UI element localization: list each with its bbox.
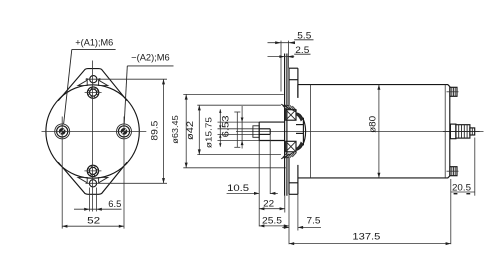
svg-text:6.5: 6.5: [108, 199, 121, 209]
tab block top (side view): [289, 67, 298, 69]
flange body circle: [46, 85, 139, 178]
shaft tip: [253, 126, 259, 138]
centerline stud A1 vertical: [61, 117, 63, 229]
body seam rear: [444, 85, 446, 178]
dim 6.53 dim line: [219, 109, 221, 147]
flange rim ext line: [280, 41, 282, 92]
bearing bottom (section): [286, 141, 296, 152]
svg-text:5.5: 5.5: [297, 30, 311, 40]
svg-text:52: 52: [87, 215, 100, 226]
ext flange face vertical: [284, 196, 286, 213]
dim 20.5 ext left: [450, 179, 452, 244]
tab block bottom (side view): [289, 182, 298, 184]
through-bolt head bottom: [450, 167, 457, 176]
hub seal bottom: [296, 142, 303, 151]
svg-text:137.5: 137.5: [352, 231, 380, 242]
svg-text:ø63.45: ø63.45: [170, 115, 180, 144]
dim 6.5 ext lines: [88, 188, 90, 212]
dim dia42 ext top: [197, 104, 281, 106]
leader -(A2): [127, 65, 173, 67]
shaft end face: [258, 122, 260, 140]
svg-text:+(A1);M6: +(A1);M6: [75, 37, 113, 47]
axis centerline: [236, 130, 484, 132]
tab hole top arrows: [86, 78, 89, 80]
mounting tab top: [58, 69, 127, 101]
tab cutout bottom-right: [99, 177, 108, 182]
front housing edge bottom: [297, 165, 299, 194]
mounting tab bottom: [58, 162, 127, 194]
shaft slot: [259, 128, 270, 130]
svg-text:10.5: 10.5: [227, 183, 249, 193]
flange plate left face: [284, 54, 286, 196]
terminal stud A1 (left): [55, 124, 70, 139]
through-bolt head top: [450, 87, 457, 96]
hub seal top: [296, 113, 303, 122]
hub boss arc: [296, 113, 306, 150]
terminal thread: [456, 125, 470, 138]
svg-text:89.5: 89.5: [149, 121, 160, 141]
ext shaft end vertical: [258, 141, 260, 227]
leader +(A1): [72, 48, 116, 50]
hub boss flat: [302, 118, 304, 146]
dim 10.5 line: [227, 192, 260, 194]
svg-text:7.5: 7.5: [307, 216, 321, 226]
bearing top (section): [286, 110, 296, 121]
svg-text:2.5: 2.5: [295, 45, 309, 55]
dim 52 line: [62, 225, 124, 227]
dim 89.5 line: [163, 79, 165, 183]
tab hole top: [90, 76, 97, 83]
dim dia42 line: [198, 105, 200, 154]
svg-text:−(A2);M6: −(A2);M6: [131, 52, 170, 62]
centerline vertical left view: [92, 61, 94, 212]
block ext line top: [287, 41, 289, 69]
shaft outline bottom: [259, 140, 284, 142]
terminal stud A2 (right): [117, 124, 132, 139]
svg-text:22: 22: [263, 198, 274, 208]
flange section hatch bottom: [281, 151, 296, 159]
ext block left vertical: [288, 194, 290, 244]
svg-text:20.5: 20.5: [452, 182, 471, 192]
tab hole bottom: [89, 180, 96, 187]
dim 20.5 line: [451, 191, 475, 193]
shaft outline top: [259, 121, 284, 123]
dim 6.5 line: [74, 208, 122, 210]
slot top ext: [218, 128, 260, 130]
dim 89.5 ext bottom: [86, 182, 168, 184]
dim 6.53 aux line: [234, 111, 240, 113]
svg-text:ø15.75: ø15.75: [204, 117, 214, 148]
dim 2.5 line: [268, 56, 295, 58]
ext body left vertical: [297, 194, 299, 230]
front housing edge top: [297, 68, 299, 98]
terminal insulator: [450, 124, 456, 139]
svg-text:ø80: ø80: [368, 116, 378, 133]
dim 137.5 line: [289, 243, 451, 245]
tab cutout top-right: [99, 80, 108, 85]
dim 89.5 ext top: [86, 78, 168, 80]
centerline horizontal left view: [42, 130, 147, 132]
centerline stud A2 vertical: [123, 117, 125, 229]
dim dia42 ext bottom: [197, 154, 281, 156]
svg-text:25.5: 25.5: [262, 215, 282, 225]
dim dia15.75 line: [241, 106, 243, 149]
motor body left edge top: [297, 85, 299, 98]
shaft top ext: [218, 121, 260, 123]
ext slot end vertical: [269, 134, 271, 194]
bolt hole bottom M6: [87, 165, 98, 176]
flange plate right face: [286, 54, 288, 196]
dim dia80 line: [378, 85, 380, 178]
tab cutout top-left: [78, 80, 87, 85]
shaft bottom ext: [218, 140, 260, 142]
body seam front: [309, 85, 311, 178]
dim 25.5 line: [259, 225, 289, 227]
svg-text:ø42: ø42: [185, 121, 195, 140]
dim dia63.45 ext top: [183, 93, 283, 95]
tab cutout bottom-left: [78, 177, 87, 182]
dim 7.5 line: [282, 226, 289, 228]
bolt hole top M6: [87, 87, 98, 98]
flange section hatch top: [281, 104, 296, 112]
dim 22 line: [259, 208, 285, 210]
motor body outline: [298, 85, 450, 178]
dim dia63.45 ext bottom: [183, 167, 285, 169]
hub shaft stub: [296, 124, 303, 126]
slot bottom ext: [218, 133, 260, 135]
dim 5.5 line: [268, 42, 296, 44]
dim 20.5 ext right: [474, 138, 476, 196]
dim dia63.45 line: [185, 94, 187, 167]
terminal tip: [470, 128, 475, 135]
